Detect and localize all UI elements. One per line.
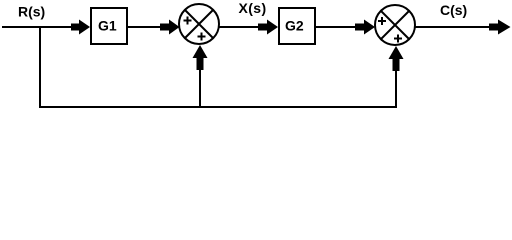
svg-text:R(s): R(s) bbox=[18, 4, 45, 20]
svg-text:C(s): C(s) bbox=[440, 2, 467, 18]
svg-text:G1: G1 bbox=[98, 18, 117, 34]
svg-text:G2: G2 bbox=[285, 18, 304, 34]
svg-text:X(s): X(s) bbox=[239, 0, 267, 16]
